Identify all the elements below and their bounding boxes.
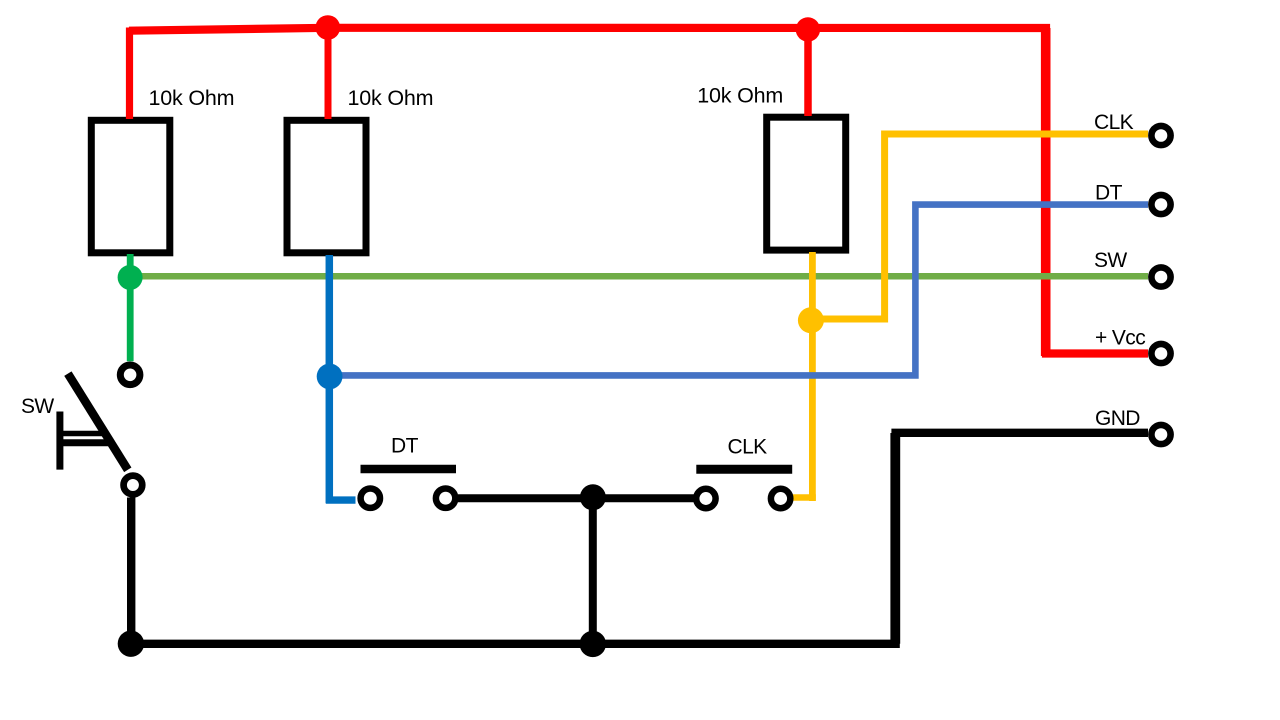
wire red drop to R3 (804, 29, 812, 116)
wire switch to GND terminal (black) (131, 433, 1148, 644)
switch SW lever (68, 374, 128, 470)
pin DT button right contact (436, 489, 455, 508)
resistor R2 (287, 120, 366, 253)
svg-text:DT: DT (1095, 181, 1123, 204)
wire SW line (olive green) (130, 273, 1148, 280)
wire DT contact to CLK contact (458, 494, 694, 502)
pin CLK button left contact (696, 489, 715, 508)
wire yellow stub to CLK contact (792, 494, 816, 501)
svg-text:10k Ohm: 10k Ohm (697, 83, 783, 107)
wire blue stub to DT contact (326, 496, 356, 503)
svg-text:SW: SW (1094, 249, 1127, 272)
wire green stub R1 to switch terminal (127, 254, 134, 361)
pin CLK terminal (1151, 126, 1170, 145)
node green junction (118, 265, 143, 290)
wire DT line (slate blue) (330, 205, 1148, 376)
pin switch top contact (120, 365, 140, 385)
svg-text:10k Ohm: 10k Ohm (348, 86, 434, 110)
pin SW terminal (1151, 267, 1170, 286)
node yellow junction (798, 307, 824, 333)
node black junction switch bottom (118, 631, 144, 657)
pushbutton CLK cap bar (696, 465, 792, 474)
resistor R3 (767, 117, 846, 250)
switch SW contact line 2 (57, 439, 109, 446)
wire yellow R3 to CLK button (809, 252, 816, 501)
pin DT terminal (1151, 195, 1170, 214)
pin switch bottom contact (124, 476, 143, 495)
node blue junction (317, 364, 343, 390)
resistor R1 (91, 120, 170, 253)
wire red drop to R1 (126, 28, 133, 120)
wire yellow to CLK terminal (811, 134, 1148, 319)
pin GND terminal (1151, 425, 1170, 444)
svg-text:CLK: CLK (728, 435, 768, 458)
svg-text:+ Vcc: + Vcc (1095, 327, 1145, 350)
switch SW pole bar (56, 412, 63, 470)
wire junction drop to GND rail (589, 496, 597, 644)
svg-text:DT: DT (391, 434, 419, 457)
svg-text:10k Ohm: 10k Ohm (149, 86, 235, 110)
pin Vcc terminal (1151, 344, 1170, 363)
wire Vcc rail (red) (129, 28, 1148, 354)
svg-text:GND: GND (1095, 407, 1140, 430)
wire red drop to R2 (325, 28, 332, 119)
node black junction GND rail (580, 631, 606, 657)
wire GND riser (890, 433, 900, 644)
node black junction DT-CLK wire (580, 484, 606, 510)
switch SW contact line 1 (57, 431, 109, 437)
pin DT button left contact (361, 489, 380, 508)
svg-text:CLK: CLK (1094, 111, 1134, 134)
node red junction over R2 (316, 15, 341, 40)
pin CLK button right contact (771, 489, 790, 508)
wire red vertical to Vcc terminal (1041, 28, 1051, 356)
node red junction over R3 (796, 17, 820, 41)
svg-text:SW: SW (21, 395, 54, 418)
wire blue R2 to DT button (326, 255, 334, 503)
pushbutton DT cap bar (361, 465, 457, 474)
